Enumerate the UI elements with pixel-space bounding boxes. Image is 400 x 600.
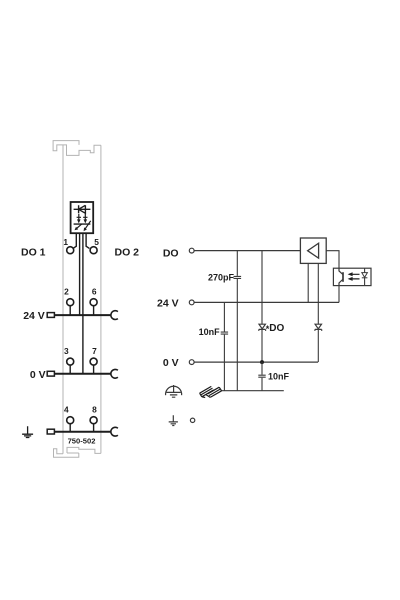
24V rail (55, 314, 111, 316)
svg-text:8: 8 (92, 405, 97, 415)
LED indicators (two, pointing down) (74, 223, 91, 225)
driver block A1 (300, 238, 326, 263)
labels (21, 237, 290, 445)
schematic: DO node circle (189, 248, 194, 253)
protective earth symbol (circled) (173, 385, 175, 392)
24V rail (schematic) (194, 301, 339, 303)
chassis symbol (200, 386, 222, 397)
wire driver to optocoupler (326, 251, 339, 269)
wire from box to 0V rail (82, 233, 84, 374)
pin 6 (90, 299, 97, 306)
vertical wire with 10nF cap (24V to chassis) (223, 302, 225, 390)
24V node circle (189, 300, 194, 305)
svg-text:3: 3 (64, 346, 69, 356)
svg-text:DO: DO (269, 323, 284, 334)
0V node circle (189, 360, 194, 365)
svg-text:DO: DO (163, 248, 179, 260)
module housing top outline (53, 141, 101, 156)
pin 4 (67, 417, 74, 424)
svg-text:270pF: 270pF (208, 273, 235, 283)
module body left edge (62, 145, 64, 454)
chassis line (221, 390, 284, 392)
optocoupler light arrows (351, 274, 360, 279)
svg-text:DO 2: DO 2 (115, 246, 140, 258)
driver leg to 24V (307, 263, 309, 302)
driver leg with zener to 0V (317, 263, 319, 362)
module housing bottom outline (54, 447, 101, 457)
0V rail (schematic) (194, 361, 318, 363)
svg-text:7: 7 (92, 346, 97, 356)
pin 7 (90, 358, 97, 365)
capacitor C2 270pF (234, 276, 242, 278)
junction dot (260, 360, 264, 364)
LED/diode box U1 (71, 202, 94, 233)
svg-text:750-502: 750-502 (68, 437, 96, 446)
svg-text:6: 6 (92, 287, 97, 297)
wire from box to pin 1 (73, 233, 76, 248)
optocoupler U2 (333, 268, 371, 285)
module body right edge (100, 145, 102, 453)
vertical wire with suppressor diode (DO to 0V) (261, 251, 263, 363)
functional earth symbol (169, 415, 178, 425)
pin 1 (67, 247, 74, 254)
svg-text:10nF: 10nF (268, 371, 290, 381)
0V rail (55, 373, 111, 375)
ground symbol (module earth rail) (22, 426, 33, 437)
svg-text:24 V: 24 V (23, 310, 45, 322)
functional earth node circle (190, 418, 194, 422)
24V feed terminal plug (47, 313, 54, 318)
pin 3 (67, 358, 74, 365)
phototransistor (339, 268, 343, 285)
LED emission arrow 2 (85, 221, 91, 229)
capacitor C3 10nF (258, 375, 265, 377)
vertical wire with 270pF cap (DO to chassis) (236, 251, 238, 391)
optocoupler LED (364, 268, 366, 285)
diode D1 (horizontal, pointing left) (74, 205, 91, 213)
svg-text:DO 1: DO 1 (21, 246, 46, 258)
zener diode V2 (315, 324, 321, 329)
0V rail socket arc (111, 369, 118, 378)
capacitor C1 10nF (221, 332, 228, 334)
zener diode V1 *DO (259, 324, 265, 329)
earth rail socket arc (111, 427, 118, 436)
wire from box to pin 5 (86, 233, 89, 248)
earth rail (55, 431, 111, 433)
pin 5 (90, 247, 97, 254)
wire optocoupler to 24V rail end (338, 286, 340, 303)
svg-text:5: 5 (94, 237, 99, 247)
svg-text:24 V: 24 V (157, 298, 179, 310)
svg-text:1: 1 (63, 237, 68, 247)
svg-text:0 V: 0 V (30, 369, 46, 381)
wire 0V junction down with 10nF cap (261, 362, 263, 391)
svg-text:10nF: 10nF (199, 327, 221, 337)
svg-text:0 V: 0 V (163, 357, 179, 369)
LED emission arrow 1 (76, 224, 81, 229)
svg-text:4: 4 (64, 405, 69, 415)
wire from box to 24V rail (79, 233, 81, 315)
24V rail socket arc (111, 311, 118, 320)
pin 8 (90, 417, 97, 424)
earth terminal plug (47, 429, 54, 434)
DO rail (194, 250, 300, 252)
pin 2 (67, 299, 74, 306)
0V feed terminal plug (47, 371, 54, 376)
svg-text:2: 2 (64, 287, 69, 297)
